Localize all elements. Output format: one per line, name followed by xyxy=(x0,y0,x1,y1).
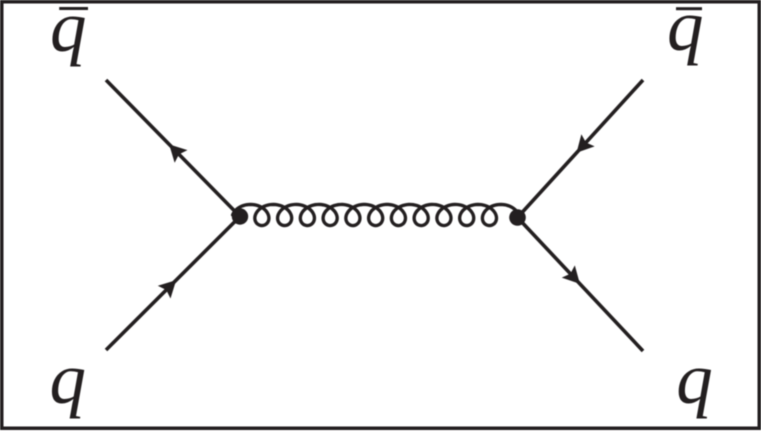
svg-text:q: q xyxy=(676,338,713,419)
svg-text:q: q xyxy=(50,338,87,419)
svg-text:q: q xyxy=(50,0,87,67)
